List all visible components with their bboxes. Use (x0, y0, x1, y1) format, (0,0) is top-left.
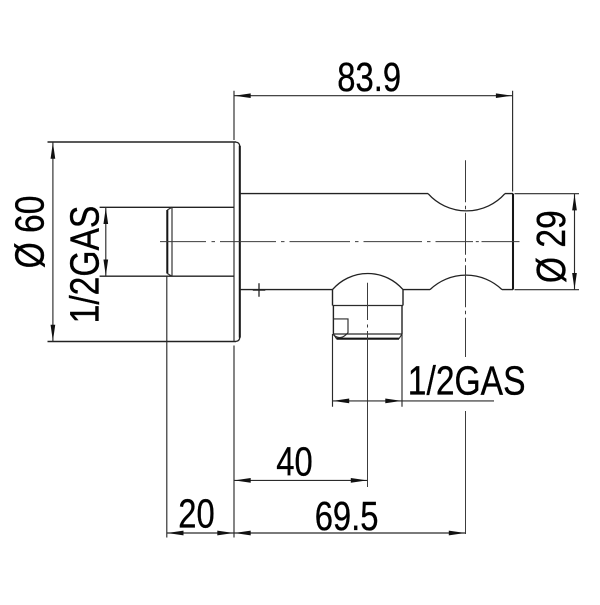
svg-text:20: 20 (178, 490, 214, 536)
body cylinder Ø29 top edge (240, 193, 513, 195)
outlet tip chamfer diagonals (333, 334, 402, 339)
dimension 83.9 line (234, 95, 513, 97)
main horizontal centerline (160, 241, 520, 243)
svg-text:1/2GAS: 1/2GAS (408, 357, 526, 403)
wall port thread chamfer edge (171, 207, 173, 276)
dimension 1/2GAS (wall port) arrows (103, 208, 108, 276)
wall port tip chamfer diagonals (167, 207, 172, 276)
flange disc Ø60 top edge (48, 141, 237, 143)
outlet tip face (thick) (337, 338, 400, 340)
dimension Ø29 extension lines (515, 194, 580, 290)
outlet thread run-out detail (333, 319, 348, 338)
dimension 40 line (234, 479, 368, 481)
body right end face (thick) (512, 194, 514, 290)
wall port 1/2GAS bottom edge (100, 275, 234, 277)
dimension 83.9 extension lines (234, 91, 513, 192)
svg-text:83.9: 83.9 (337, 53, 401, 99)
dimension 20 extension line (166, 276, 168, 537)
svg-text:Ø 29: Ø 29 (528, 210, 574, 283)
dimension 40 arrows (234, 478, 367, 483)
holder hole vertical centerline upper (465, 160, 467, 357)
shared left extension line below flange (233, 346, 235, 538)
dimension 1/2GAS (wall port) line (105, 207, 107, 276)
dimension Ø29 line (574, 194, 576, 290)
dimension 69.5 arrows (234, 531, 465, 536)
outlet 1/2GAS extension lines (333, 334, 403, 407)
flange face outer contour (thick) (239, 146, 241, 338)
dimension Ø60 arrows (51, 142, 56, 341)
holder hole vertical centerline lower (465, 411, 467, 534)
svg-text:40: 40 (276, 438, 312, 484)
svg-text:69.5: 69.5 (315, 492, 379, 538)
grub screw center mark (253, 283, 265, 297)
body cylinder Ø29 bottom edge (240, 289, 513, 291)
outlet port vertical centerline (367, 283, 369, 487)
outlet thread sides (333, 306, 402, 335)
svg-text:Ø 60: Ø 60 (6, 196, 52, 269)
outlet port collar sides (333, 290, 404, 306)
dimension Ø60 line (52, 142, 54, 342)
flange face inner contour line (233, 142, 235, 342)
flange face outer contour corner arcs (236, 142, 240, 341)
dimension 20/69.5 shared line (167, 532, 466, 534)
outlet port collar shoulder (333, 305, 404, 307)
wall port 1/2GAS top edge (100, 206, 234, 208)
dimension 83.9 arrows (234, 93, 512, 98)
wall port tip face (thick) (166, 210, 168, 274)
flange disc Ø60 bottom edge (48, 341, 237, 343)
holder recess concave arc (top) (428, 194, 505, 211)
outlet 1/2GAS dimension line with landing (333, 400, 495, 402)
dimension 20 arrows (167, 531, 233, 536)
outlet thread chamfer edge (333, 333, 402, 335)
dimension Ø29 arrows (572, 194, 577, 289)
holder hole convex arc (bottom) (430, 275, 502, 289)
outlet 1/2GAS arrows (333, 399, 402, 404)
outlet port arch fillet (333, 273, 404, 289)
svg-text:1/2GAS: 1/2GAS (61, 206, 107, 324)
